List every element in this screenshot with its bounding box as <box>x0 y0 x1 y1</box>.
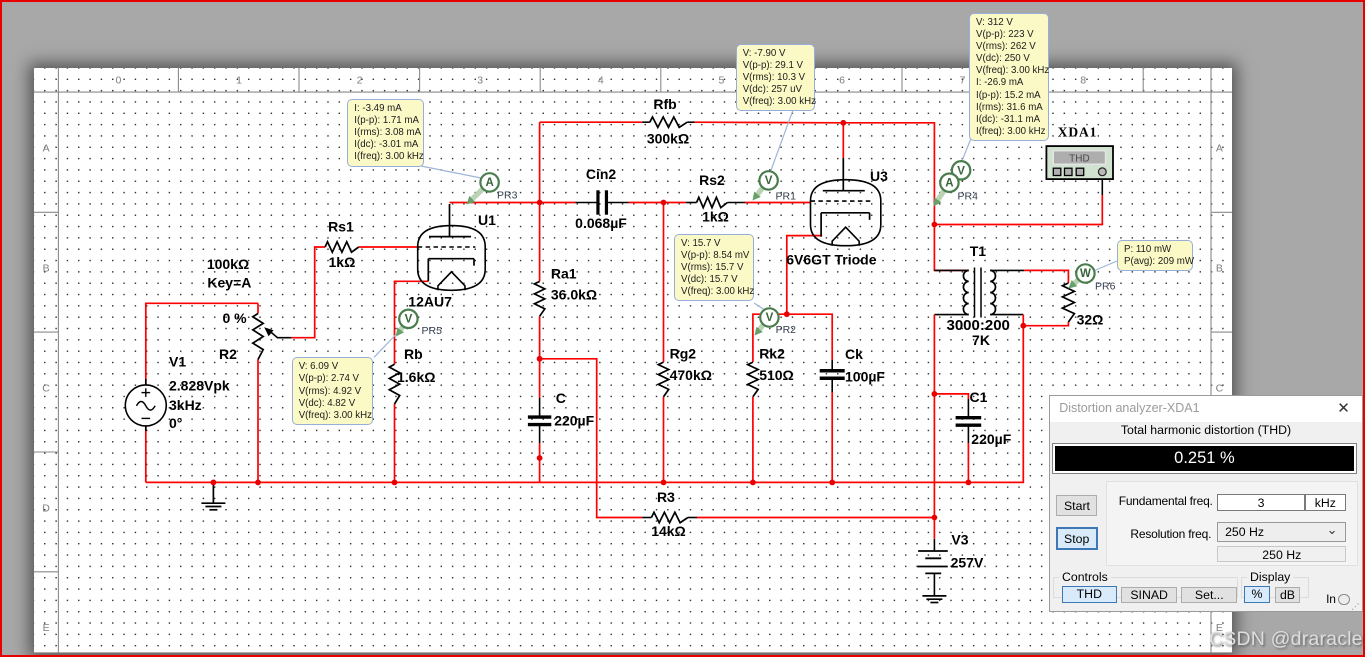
svg-text:36.0kΩ: 36.0kΩ <box>551 287 597 303</box>
ground main <box>201 482 225 509</box>
probe PR3 <box>467 173 499 204</box>
measurement box PR4 <box>969 13 1049 141</box>
wire U3 plate node to PR4 corner <box>843 123 934 225</box>
svg-text:Ck: Ck <box>845 346 863 362</box>
value Rb 1.6k <box>397 369 435 385</box>
wire ground rail <box>146 326 1024 483</box>
svg-text:6: 6 <box>839 74 845 86</box>
measurement box PR3 <box>347 99 424 166</box>
svg-text:100kΩ: 100kΩ <box>207 256 249 272</box>
label Ck <box>845 346 863 362</box>
probe PR6 leader line <box>1094 261 1118 271</box>
junction rail R2 <box>255 480 261 486</box>
label 6V6GT Triode <box>786 252 876 268</box>
value C1 220uF <box>971 431 1011 447</box>
wire U3 plate lead <box>842 123 844 158</box>
svg-text:B: B <box>1216 263 1223 275</box>
svg-text:V: V <box>765 175 773 187</box>
junction Ra1 bottom <box>537 356 543 362</box>
wire Rs2 to U3 grid <box>745 202 811 204</box>
junction V3 node <box>932 515 938 521</box>
resistor Rs1 <box>325 242 359 252</box>
svg-text:A: A <box>43 143 50 155</box>
wire Cin2 left lead black <box>575 202 598 204</box>
probe PR3 leader line <box>421 166 484 179</box>
resistor Rs2 <box>697 197 728 207</box>
probe PR2 <box>755 308 779 335</box>
wire node B to Rs2 <box>664 202 687 204</box>
svg-text:32Ω: 32Ω <box>1077 311 1104 327</box>
wire U1 plate to node A <box>450 202 540 204</box>
wire Cin2 right lead black <box>606 202 628 204</box>
svg-text:257V: 257V <box>951 555 984 571</box>
junction U3 cathode <box>784 311 790 317</box>
svg-text:100µF: 100µF <box>845 369 885 385</box>
wire R2 bottom lead to ground rail <box>257 360 259 483</box>
wire T1 secondary top lead <box>990 269 1024 271</box>
label V3 <box>951 532 968 548</box>
wire R2 wiper to Rs1 <box>291 247 325 338</box>
svg-text:4: 4 <box>598 74 604 86</box>
junction PR4 node <box>932 222 938 228</box>
junction node B <box>661 200 667 206</box>
label Ra1 <box>551 266 577 282</box>
ground below V3 <box>922 596 946 603</box>
wire cap C bottom lead to rail <box>539 443 541 482</box>
svg-text:2.828Vpk: 2.828Vpk <box>169 378 230 394</box>
svg-text:U1: U1 <box>478 212 496 228</box>
capacitor C1 <box>956 418 982 426</box>
svg-text:220µF: 220µF <box>971 431 1011 447</box>
svg-text:3: 3 <box>477 74 483 86</box>
wire Rk2 bottom lead to rail <box>752 397 754 483</box>
wire T1 primary top lead black <box>934 269 968 271</box>
svg-text:470kΩ: 470kΩ <box>670 367 712 383</box>
value 0deg <box>169 415 182 431</box>
wire cathode junction to Ck <box>787 314 832 360</box>
resistor R3 <box>651 512 688 522</box>
svg-text:220µF: 220µF <box>554 413 594 429</box>
resistor Rg2 <box>658 362 668 397</box>
label Rfb <box>653 96 676 112</box>
svg-text:Key=A: Key=A <box>207 274 251 290</box>
svg-text:0°: 0° <box>169 415 182 431</box>
wire R2 top lead <box>257 303 259 313</box>
wire XDA1 input to PR4 node <box>934 195 1102 225</box>
wire node to cap C <box>539 359 541 398</box>
wire C1 bottom lead to rail <box>967 443 969 482</box>
wire node to R3 branch <box>540 359 643 518</box>
svg-text:D: D <box>42 502 50 514</box>
capacitor C <box>528 417 551 425</box>
watermark <box>1209 628 1363 651</box>
junction rail ground <box>211 480 217 486</box>
wire V1 top lead to R2 <box>146 303 258 385</box>
value Rfb 300k <box>647 131 689 147</box>
capacitor Ck <box>820 371 845 379</box>
svg-text:V1: V1 <box>169 354 186 370</box>
svg-text:A: A <box>485 177 493 189</box>
wire T1 primary bottom down to C1 node <box>933 315 935 394</box>
transformer T1 <box>963 268 995 318</box>
wire T1 secondary bottom lead <box>990 314 1023 316</box>
svg-text:E: E <box>43 622 50 634</box>
capacitor Cin2 <box>598 190 607 214</box>
instrument XDA1 icon <box>1046 146 1113 179</box>
probe PR5 leader line <box>374 326 405 358</box>
svg-text:7: 7 <box>960 74 966 86</box>
value C 220uF <box>554 413 594 429</box>
probe PR5 <box>396 310 418 337</box>
svg-text:PR2: PR2 <box>776 324 797 336</box>
junction secondary <box>1020 323 1026 329</box>
wire V1 bottom lead <box>145 426 147 483</box>
svg-text:1: 1 <box>236 74 242 86</box>
wire main row node A to Cin2 <box>540 202 576 204</box>
resistor Rb <box>389 364 399 404</box>
svg-text:6V6GT Triode: 6V6GT Triode <box>786 252 876 268</box>
label PR5 <box>422 325 443 337</box>
wire C bottom lead black <box>539 425 541 443</box>
svg-text:THD: THD <box>1069 154 1090 165</box>
value Cin2 0.068uF <box>575 215 627 231</box>
junction U3 plate <box>840 120 846 126</box>
svg-text:2: 2 <box>357 74 363 86</box>
svg-text:Rs1: Rs1 <box>328 219 354 235</box>
wire C1 top lead black <box>967 399 969 418</box>
label U3 <box>870 168 888 184</box>
label 0 % <box>222 310 247 326</box>
junction rail Rb <box>392 480 398 486</box>
svg-text:1kΩ: 1kΩ <box>329 254 356 270</box>
value Rs2 1k <box>702 209 729 225</box>
svg-text:C: C <box>42 383 50 395</box>
probe PR2 leader line <box>754 303 764 310</box>
probe PR6 <box>1069 264 1095 288</box>
probe PR1 leader line <box>770 110 793 173</box>
svg-text:0 %: 0 % <box>222 310 247 326</box>
value V3 257V <box>951 555 984 571</box>
wire Ck bottom lead to rail <box>831 392 833 482</box>
svg-text:Rg2: Rg2 <box>670 346 697 362</box>
svg-text:1kΩ: 1kΩ <box>702 209 729 225</box>
resistor RL 32ohm <box>1062 283 1074 322</box>
junction C1 node <box>932 391 938 397</box>
wire PR4 node to T1 primary top <box>934 225 968 271</box>
svg-text:1.6kΩ: 1.6kΩ <box>397 369 435 385</box>
svg-text:C: C <box>1216 383 1224 395</box>
svg-text:0.068µF: 0.068µF <box>575 215 627 231</box>
label R2 <box>219 346 237 362</box>
svg-text:PR5: PR5 <box>422 325 443 337</box>
wire 32ohm bottom to secondary junction <box>1023 322 1068 326</box>
wire Rs1 right lead to U1 grid <box>359 246 418 248</box>
svg-text:Rb: Rb <box>404 346 423 362</box>
wire node A vertical (Rfb tap down to Ra1) <box>539 122 541 281</box>
value 3000:200 <box>946 317 1009 334</box>
label PR3 <box>497 190 518 202</box>
value Rg2 470k <box>670 367 712 383</box>
svg-text:V: V <box>766 312 774 324</box>
wire Rfb leads black <box>642 121 694 123</box>
wire Ck bottom lead black <box>831 378 833 392</box>
label 100k <box>207 256 249 272</box>
battery V3 <box>917 539 947 596</box>
svg-text:C1: C1 <box>970 389 988 405</box>
value Rk2 510 <box>759 367 794 383</box>
instrument panel Distortion analyzer-XDA1 <box>1049 395 1363 612</box>
wire U3 plate lead black <box>842 158 844 191</box>
wire Rg2 bottom lead to rail <box>663 397 665 483</box>
wire Rfb right to U3 plate node <box>695 121 844 124</box>
wire Rfb top feed <box>540 121 643 123</box>
wire cathode junction to Rk2 <box>753 314 787 362</box>
measurement box PR6 <box>1117 240 1193 271</box>
junction cap C top <box>537 455 543 461</box>
svg-text:A: A <box>945 177 953 189</box>
label Key=A <box>207 274 251 290</box>
wire secondary top to 32ohm load <box>1024 270 1068 283</box>
label Rg2 <box>670 346 697 362</box>
junction rail Rk2 <box>750 480 756 486</box>
label Rs2 <box>699 172 725 188</box>
wire Ra1 bottom to node junction <box>539 316 541 359</box>
value 3kHz <box>169 397 202 413</box>
svg-text:XDA1: XDA1 <box>1058 125 1098 140</box>
label 12AU7 <box>408 294 452 310</box>
wire U3 cathode to junction <box>787 236 822 315</box>
label PR6 <box>1095 281 1116 293</box>
label XDA1 <box>1058 125 1098 140</box>
svg-text:12AU7: 12AU7 <box>408 294 452 310</box>
value Rs1 1k <box>329 254 356 270</box>
triode U3 <box>811 180 881 246</box>
wire Rb bottom lead to ground rail <box>394 404 396 482</box>
svg-text:300kΩ: 300kΩ <box>647 131 689 147</box>
probe PR1 <box>753 171 778 200</box>
wire C1 top lead <box>934 394 968 399</box>
label T1 <box>970 243 987 259</box>
svg-text:PR4: PR4 <box>958 191 979 203</box>
wire XDA1 input black <box>1101 176 1103 195</box>
AC source V1 <box>125 379 166 431</box>
resistor Rfb <box>650 117 687 127</box>
wire Cin2 to node B <box>629 202 664 204</box>
probe PR4 <box>934 161 971 206</box>
label Rk2 <box>759 346 785 362</box>
label C <box>556 390 566 406</box>
svg-text:PR3: PR3 <box>497 190 518 202</box>
wire U1 plate lead <box>449 204 451 237</box>
measurement box PR2 <box>674 234 754 301</box>
resistor Rk2 <box>748 362 758 397</box>
svg-text:V: V <box>957 165 965 177</box>
svg-text:Rs2: Rs2 <box>699 172 725 188</box>
wire Rg2 top lead from node B <box>663 203 665 363</box>
label PR4 <box>958 191 979 203</box>
potentiometer R2 wiper arrow <box>264 327 291 337</box>
wire Ck top lead black <box>831 360 833 371</box>
svg-text:Rfb: Rfb <box>653 96 676 112</box>
svg-text:Ra1: Ra1 <box>551 266 577 282</box>
measurement box PR1 <box>736 44 816 111</box>
svg-text:7K: 7K <box>972 332 990 348</box>
svg-text:W: W <box>1080 268 1091 280</box>
svg-text:3kHz: 3kHz <box>169 397 202 413</box>
label Rs1 <box>328 219 354 235</box>
wire T1 primary bottom lead <box>934 314 968 316</box>
junction node A <box>537 200 543 206</box>
svg-text:U3: U3 <box>870 168 888 184</box>
svg-text:R2: R2 <box>219 346 237 362</box>
wire U1 cathode to Rb <box>395 281 429 364</box>
resistor Ra1 <box>534 281 544 316</box>
triode U1 <box>418 226 486 291</box>
potentiometer R2 <box>253 314 263 360</box>
svg-text:Cin2: Cin2 <box>586 166 617 182</box>
label PR2 <box>776 324 797 336</box>
wire R3 right lead to V3 node <box>697 517 934 519</box>
label Cin2 <box>586 166 617 182</box>
junction rail Ck <box>829 480 835 486</box>
wire secondary bottom to junction <box>1022 315 1024 326</box>
probe PR4 leader line <box>962 136 973 162</box>
label Rb <box>404 346 423 362</box>
svg-text:PR1: PR1 <box>776 191 797 203</box>
svg-text:PR6: PR6 <box>1095 281 1116 293</box>
junction rail C1 <box>966 480 972 486</box>
svg-text:R3: R3 <box>657 489 675 505</box>
label R3 <box>657 489 675 505</box>
value Ra1 36.0k <box>551 287 597 303</box>
svg-text:510Ω: 510Ω <box>759 367 794 383</box>
label V1 <box>169 354 186 370</box>
svg-text:5: 5 <box>718 74 724 86</box>
value 7K <box>972 332 990 348</box>
wire V3 top lead <box>933 518 935 539</box>
wire R3 leads black <box>642 517 697 519</box>
label U1 <box>478 212 496 228</box>
svg-text:Rk2: Rk2 <box>759 346 785 362</box>
svg-text:B: B <box>43 263 50 275</box>
wire Rs2 leads black <box>686 202 745 204</box>
value R3 14k <box>651 523 686 539</box>
label 32ohm <box>1077 311 1104 327</box>
wire C1 bottom lead black <box>967 425 969 443</box>
svg-text:V3: V3 <box>951 532 968 548</box>
value 2.828Vpk <box>169 378 230 394</box>
svg-text:8: 8 <box>1080 74 1086 86</box>
svg-text:0: 0 <box>115 74 121 86</box>
svg-text:A: A <box>1216 143 1223 155</box>
svg-text:C: C <box>556 390 566 406</box>
svg-text:T1: T1 <box>970 243 987 259</box>
wire C1 node to V3 node <box>933 394 935 518</box>
svg-text:V: V <box>405 313 413 325</box>
value Ck 100uF <box>845 369 885 385</box>
junction rail Rg2 <box>661 480 667 486</box>
svg-text:14kΩ: 14kΩ <box>651 523 686 539</box>
measurement box PR5 <box>292 357 374 424</box>
schematic sheet <box>34 68 1232 654</box>
wire C top lead black <box>539 398 541 417</box>
label C1 <box>970 389 988 405</box>
label PR1 <box>776 191 797 203</box>
